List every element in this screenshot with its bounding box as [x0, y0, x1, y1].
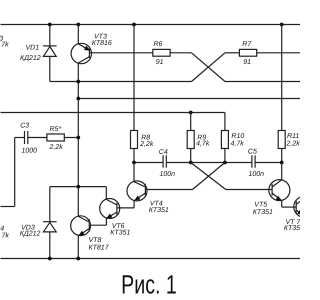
svg-text:R5*: R5* [50, 126, 62, 133]
label R11 [286, 133, 301, 147]
wire C4 to R9 node [166, 162, 190, 164]
wire y98 row from VT3 collector line to right edge [78, 98, 300, 100]
wire R5 to VT3 collector line [64, 137, 78, 139]
label R5* [49, 126, 64, 151]
wire VT6 emitter to VT8 base [89, 224, 106, 226]
diode VD1 [43, 25, 57, 82]
svg-text:VT8: VT8 [89, 237, 102, 244]
resistor R11 [278, 131, 285, 149]
wire R9 node to R10 node [191, 162, 225, 164]
node bottom rail / VT8 emitter junction [76, 257, 80, 261]
transistor VT7 (cut off at right edge) [294, 196, 315, 217]
capacitor C4 [163, 155, 166, 167]
wire C5 to R11 node [255, 162, 282, 164]
svg-text:R10: R10 [231, 133, 244, 140]
node top rail / R8 branch junction [132, 23, 136, 27]
wire R8 bottom to node [133, 149, 135, 163]
svg-text:2,2k: 2,2k [49, 143, 64, 151]
label VT6 [110, 223, 130, 236]
wire bias rail y=112.5 from left edge [1, 112, 225, 114]
svg-text:C4: C4 [159, 149, 168, 156]
wire lower crossover diagonal to VT4 base [145, 163, 225, 190]
node R5 / VT3 collector line junction [76, 136, 80, 140]
svg-text:7k: 7k [1, 231, 9, 239]
svg-text:91: 91 [243, 59, 251, 66]
wire VT3 base to R6 [89, 52, 152, 54]
node C5 / R10 junction [223, 161, 227, 165]
resistor R7 [239, 49, 256, 56]
svg-text:91: 91 [156, 59, 164, 66]
transistor VT3 (KT816, PNP) [71, 25, 91, 217]
svg-text:R11: R11 [287, 133, 299, 140]
wire lower crossover diagonal to VT5 base [191, 163, 272, 190]
wire R7 to right edge [257, 52, 301, 54]
label VD3 [20, 224, 41, 237]
resistor R6 [153, 49, 170, 56]
transistor VT6 (KT351) [100, 187, 120, 226]
transistor VT8 (KT817) [71, 216, 91, 259]
resistor R4 label (cut off at left edge) [0, 226, 9, 240]
node top rail / VD1 junction [48, 23, 52, 27]
resistor R3 label (cut off at left edge) [0, 35, 9, 48]
label VT3 [92, 34, 112, 47]
wire R6 to crossover [170, 52, 191, 54]
node bottom rail / VD3 junction [48, 257, 52, 261]
svg-text:КТ35: КТ35 [284, 225, 300, 232]
node y81 / VT3 collector line junction [76, 80, 80, 84]
wire VT6 collector branch from y186 row [50, 186, 107, 188]
svg-text:2,2k: 2,2k [286, 139, 301, 147]
wire C3 left branch [1, 138, 25, 207]
resistor R9 [187, 131, 194, 149]
wire crossover to R7 [225, 52, 239, 54]
node R8 / C4 / VT4 collector [132, 161, 136, 165]
svg-text:C3: C3 [20, 123, 29, 130]
wire crossover diagonal (lower-left rail up to R7) [192, 53, 226, 82]
resistor R10 [221, 131, 228, 149]
svg-text:R7: R7 [242, 41, 252, 48]
wire VT5 emitter to VT7 base [282, 206, 297, 208]
node top rail / VT3 emitter junction [76, 23, 80, 27]
wire R9 top lead [190, 113, 192, 131]
svg-text:100n: 100n [249, 171, 265, 178]
label R8 [139, 135, 154, 148]
wire coupling row y=162 left segment [134, 162, 163, 164]
wire right part of y81 row to right edge [225, 81, 301, 83]
svg-text:КТ816: КТ816 [92, 40, 112, 47]
node top rail / R11 branch junction [280, 23, 284, 27]
svg-text:Рис. 1: Рис. 1 [121, 269, 177, 299]
label C5 [248, 149, 264, 178]
svg-text:КТ351: КТ351 [110, 229, 130, 236]
label VD1 [20, 45, 41, 62]
node C5 / R11 / VT5 collector [280, 161, 284, 165]
wire R10 bottom lead [224, 149, 226, 163]
svg-text:100n: 100n [160, 171, 176, 178]
wire R11 branch from top rail [281, 25, 283, 131]
wire R11 bottom lead [281, 149, 283, 163]
label R10 [231, 133, 245, 147]
svg-text:VT5: VT5 [254, 202, 267, 209]
resistor R8 [131, 131, 138, 149]
svg-text:КТ351: КТ351 [149, 207, 169, 214]
label C3 [20, 123, 37, 155]
svg-text:C5: C5 [248, 149, 257, 156]
capacitor C3 [25, 131, 28, 144]
wire VT4 emitter to VT6 base [117, 207, 134, 209]
svg-text:4,7k: 4,7k [196, 140, 210, 148]
svg-text:VD1: VD1 [25, 45, 39, 52]
wire R10 top lead from rail corner [224, 113, 226, 131]
wire crossover diagonal (R6 down to lower-right rail) [192, 53, 226, 82]
svg-text:2,2k: 2,2k [139, 140, 154, 148]
svg-text:КД212: КД212 [20, 55, 41, 62]
label C4 [159, 149, 175, 178]
wire C3 to R5 [28, 137, 47, 139]
svg-text:4,7k: 4,7k [231, 139, 245, 147]
svg-text:КД212: КД212 [20, 230, 41, 237]
caption Puc. 1 [121, 269, 177, 299]
wire R9 bottom lead [190, 149, 192, 163]
wire R8 branch from top rail [133, 25, 135, 131]
wire top supply rail [1, 24, 301, 26]
diode VD3 [43, 187, 57, 259]
transistor VT5 (KT351) [269, 163, 290, 208]
node y98 / VT3 collector line junction [76, 97, 80, 101]
svg-text:7k: 7k [1, 40, 9, 48]
svg-text:КТ351: КТ351 [253, 209, 273, 216]
node C4 / R9 junction [189, 161, 193, 165]
resistor R5* [47, 134, 64, 141]
label VT8 [89, 237, 110, 252]
node bias rail / R9 top junction [189, 111, 193, 115]
label R6 [154, 41, 164, 66]
wire bottom ground rail [1, 258, 301, 260]
wire VD1 bottom row (y=81) [50, 81, 192, 83]
svg-text:1000: 1000 [22, 148, 38, 155]
label R9 [196, 134, 210, 147]
wire R10 node to C5 [225, 162, 252, 164]
svg-text:R6: R6 [154, 41, 163, 48]
label VT7 [284, 219, 301, 232]
svg-text:КТ817: КТ817 [89, 244, 110, 251]
node y186 / VT3 collector line (VT8 collector) [76, 185, 80, 189]
capacitor C5 [252, 155, 255, 167]
label R7 [242, 41, 252, 66]
label VT5 [253, 202, 273, 216]
label VT4 [149, 200, 169, 213]
transistor VT4 (KT351) [127, 163, 147, 208]
